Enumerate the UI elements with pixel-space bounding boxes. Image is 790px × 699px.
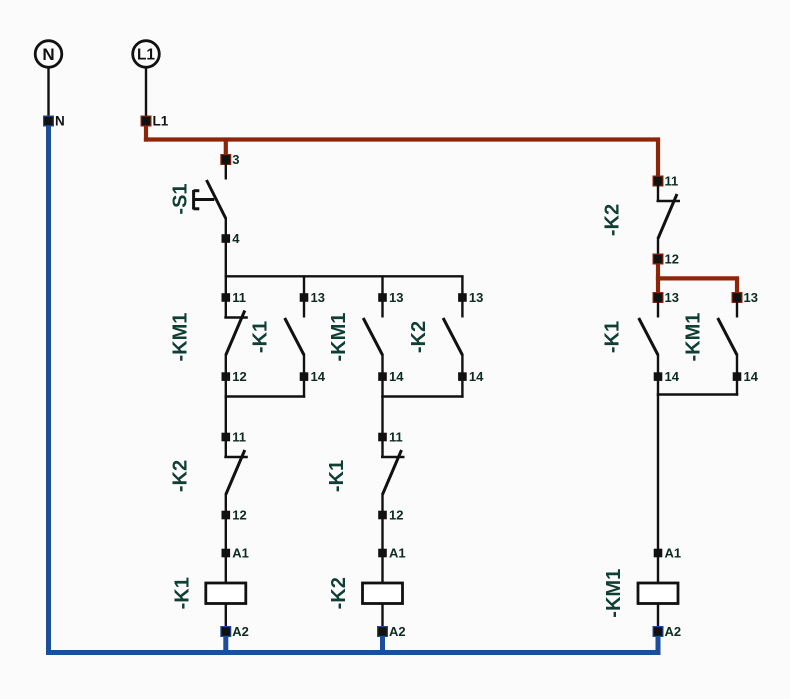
label coil -K2 — [328, 577, 350, 609]
svg-text:-K2: -K2 — [170, 460, 192, 492]
label -KM1 right — [683, 313, 705, 362]
svg-text:14: 14 — [665, 369, 680, 384]
wire terminal L1 to node L1 — [145, 67, 147, 117]
wire branch to col2 top node — [303, 276, 305, 293]
svg-text:12: 12 — [232, 369, 246, 384]
node 12 (K2 NC right) — [653, 252, 679, 267]
node 13 (K1 NO) — [300, 290, 325, 305]
contact -K1 NC (11-12) — [381, 441, 405, 511]
svg-text:13: 13 — [665, 290, 679, 305]
svg-text:14: 14 — [469, 369, 484, 384]
node 12 (K2 NC) — [222, 508, 247, 523]
wire join to A1 KM1 — [657, 395, 659, 550]
contact -KM1 NC (11-12) — [224, 302, 248, 373]
svg-text:A1: A1 — [389, 546, 406, 561]
node 14 (K1 NO right) — [654, 369, 680, 384]
contact -K2 NC right (11-12) — [657, 185, 681, 255]
node 14 (KM1 NO) — [378, 369, 404, 384]
svg-text:N: N — [42, 45, 54, 64]
neutral wire (blue) bottom bus — [46, 650, 661, 655]
branch wire horizontal — [225, 275, 464, 277]
join wire pair2 — [381, 395, 463, 397]
contact -K2 NO (13-14) — [443, 302, 462, 373]
label -K2 row2 — [170, 460, 192, 492]
svg-text:13: 13 — [469, 290, 483, 305]
label -KM1 row1 — [170, 313, 192, 362]
pushbutton S1 actuator — [194, 190, 215, 210]
node N — [43, 114, 65, 129]
svg-text:11: 11 — [232, 290, 246, 305]
wire node 3 to S1 — [225, 164, 227, 180]
label -S1 — [170, 183, 192, 214]
wire node12 to A1 -K2 — [381, 519, 383, 549]
svg-text:-K2: -K2 — [328, 577, 350, 609]
svg-text:14: 14 — [311, 369, 326, 384]
join wire pair1 — [225, 395, 306, 397]
svg-text:14: 14 — [389, 369, 404, 384]
svg-text:-KM1: -KM1 — [328, 313, 350, 362]
node 4 — [222, 231, 241, 246]
svg-text:-KM1: -KM1 — [603, 569, 625, 618]
node A2 -K1 — [220, 624, 249, 639]
svg-text:-K1: -K1 — [326, 460, 348, 492]
wire coil to A2 -KM1 — [657, 604, 659, 628]
svg-text:-S1: -S1 — [170, 183, 192, 214]
wire A1 to coil -KM1 — [657, 557, 659, 583]
wire branch to col4 top node — [461, 276, 463, 293]
node A1 -K1 — [222, 546, 249, 561]
coil -K2 — [363, 583, 403, 604]
red wire branch down to node 13 right — [735, 278, 739, 297]
terminal N — [35, 41, 62, 68]
neutral wire (blue) left vertical — [46, 121, 51, 655]
wire node 4 to branch — [225, 243, 227, 277]
node A2 -KM1 — [653, 624, 682, 639]
node 13 (KM1 NO) — [378, 290, 403, 305]
wire join to col1 row2 — [225, 397, 227, 434]
svg-text:-K1: -K1 — [172, 577, 194, 609]
wire branch to col1 top node — [225, 276, 227, 293]
node A2 -K2 — [377, 624, 406, 639]
svg-text:A1: A1 — [232, 546, 249, 561]
wire coil to A2 -K2 — [381, 604, 383, 628]
wire terminal N to node N — [47, 67, 49, 117]
label -KM1 row1 col3 — [328, 313, 350, 362]
node 3 — [220, 152, 239, 167]
svg-text:-K2: -K2 — [408, 321, 430, 353]
coil -KM1 — [638, 583, 678, 604]
node 13 (K1 NO right) — [653, 290, 679, 305]
wire A1 to coil -K2 — [381, 557, 383, 583]
svg-text:13: 13 — [311, 290, 325, 305]
node A1 -KM1 — [654, 546, 681, 561]
terminal L1 — [133, 41, 160, 68]
svg-text:A2: A2 — [665, 624, 682, 639]
node 14 (K2 NO) — [458, 369, 484, 384]
wire A1 to coil -K1 — [225, 557, 227, 583]
phase wire (red) L1 drop — [144, 121, 148, 142]
wire node14 col3 down — [381, 381, 383, 398]
svg-text:A2: A2 — [389, 624, 406, 639]
svg-text:11: 11 — [232, 430, 246, 445]
node L1 — [141, 114, 169, 129]
svg-text:13: 13 — [389, 290, 403, 305]
label -K1 row2 — [326, 460, 348, 492]
label -K2 row1 — [408, 321, 430, 353]
wire node14 col6 down — [736, 381, 738, 396]
pushbutton S1 contact — [207, 180, 226, 235]
wire join to col3 row2 — [381, 397, 383, 434]
blue stub A2 -KM1 to bus — [656, 632, 661, 656]
node A1 -K2 — [378, 546, 405, 561]
contact -K1 NO (13-14) — [285, 302, 304, 373]
contact -KM1 NO (13-14) — [363, 302, 382, 373]
label coil -KM1 — [603, 569, 625, 618]
red branch wire to right column — [656, 276, 739, 280]
wire node12 col1 down — [225, 381, 227, 398]
label -K2 right — [602, 204, 624, 236]
svg-text:12: 12 — [389, 508, 403, 523]
phase wire (red) right drop to node 11 — [656, 140, 660, 182]
contact -K1 NO right (13-14) — [639, 302, 658, 373]
wire node14 col2 down — [303, 381, 305, 398]
blue stub A2 -K2 to bus — [380, 632, 385, 653]
label -K1 right — [602, 321, 624, 353]
wire node14 col5 down — [657, 381, 659, 396]
svg-text:14: 14 — [744, 369, 759, 384]
svg-text:13: 13 — [744, 290, 758, 305]
svg-text:11: 11 — [665, 174, 679, 189]
wire branch to col3 top node — [381, 276, 383, 293]
svg-text:L1: L1 — [153, 114, 169, 129]
svg-text:N: N — [55, 114, 65, 129]
label -K1 row1 — [250, 321, 272, 353]
node 13 (KM1 NO right) — [732, 290, 758, 305]
svg-text:4: 4 — [232, 231, 240, 246]
red wire node 12 to node 13 left — [656, 259, 660, 298]
node 14 (K1 NO) — [300, 369, 326, 384]
node 11 (K2 NC) — [222, 430, 247, 445]
svg-text:12: 12 — [232, 508, 246, 523]
coil -K1 — [206, 583, 246, 604]
wire node12 to A1 -K1 — [225, 519, 227, 549]
node 12 (K1 NC) — [378, 508, 403, 523]
wire coil to A2 -K1 — [225, 604, 227, 628]
svg-text:3: 3 — [232, 152, 239, 167]
join wire right pair — [657, 393, 738, 395]
svg-text:L1: L1 — [137, 47, 155, 64]
svg-text:A1: A1 — [665, 546, 682, 561]
svg-text:-KM1: -KM1 — [170, 313, 192, 362]
svg-text:-K1: -K1 — [602, 321, 624, 353]
svg-text:-K1: -K1 — [250, 321, 272, 353]
phase wire (red) top bus — [144, 137, 660, 141]
svg-text:-KM1: -KM1 — [683, 313, 705, 362]
node 14 (KM1 NO right) — [733, 369, 759, 384]
blue stub A2 -K1 to bus — [223, 632, 228, 653]
svg-text:11: 11 — [389, 430, 403, 445]
svg-text:-K2: -K2 — [602, 204, 624, 236]
contact -K2 NC (11-12) — [224, 441, 248, 511]
contact -KM1 NO right (13-14) — [718, 302, 737, 373]
node 13 (K2 NO) — [458, 290, 483, 305]
red branch wire to node 3 — [224, 140, 228, 160]
node 11 (KM1 NC) — [222, 290, 247, 305]
node 12 (KM1 NC) — [222, 369, 247, 384]
svg-text:A2: A2 — [232, 624, 249, 639]
node 11 (K2 NC right) — [653, 174, 679, 189]
wire node14 col4 down — [461, 381, 463, 398]
label coil -K1 — [172, 577, 194, 609]
node 11 (K1 NC) — [378, 430, 403, 445]
svg-text:12: 12 — [665, 252, 679, 267]
